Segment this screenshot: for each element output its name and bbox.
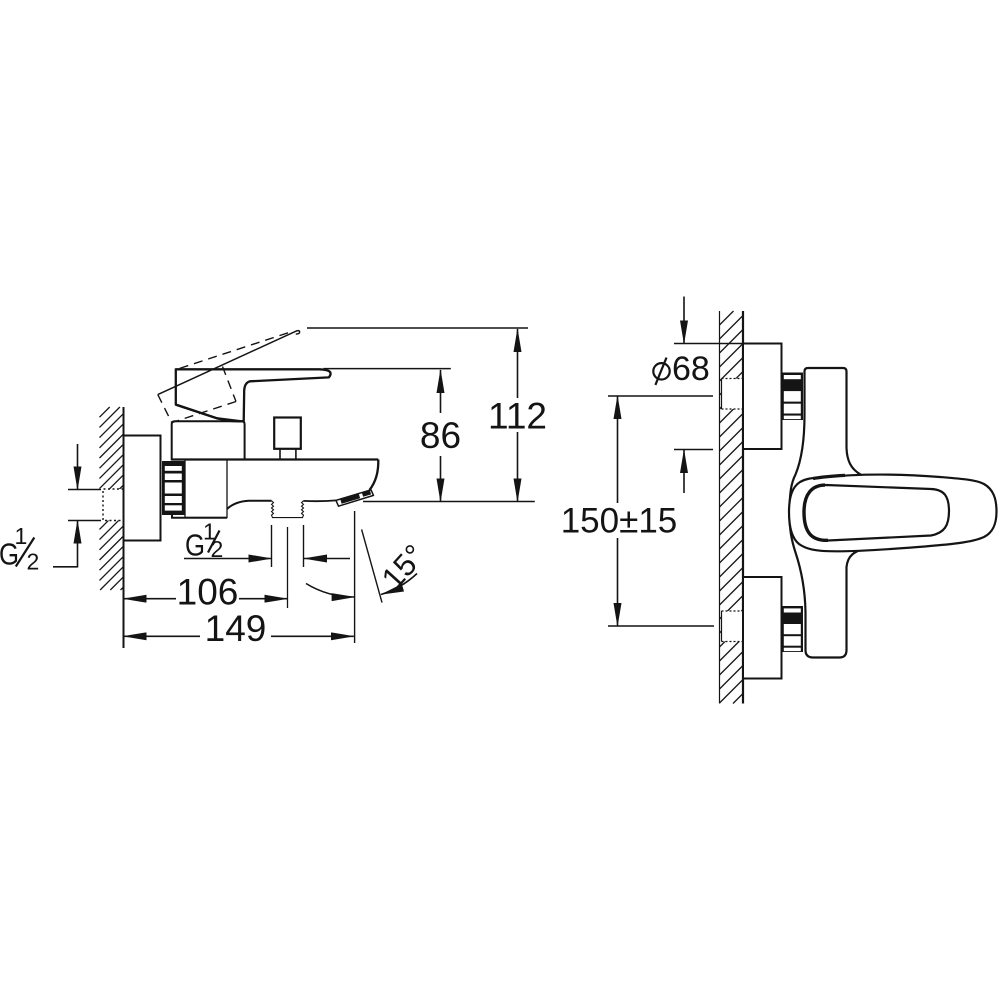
wall face line left view bbox=[123, 407, 125, 648]
cap top edge (under handle) bbox=[176, 420, 243, 422]
bottom union nut bbox=[782, 606, 804, 652]
dim 106 bbox=[124, 572, 288, 613]
raised handle top edge (thin solid with tip hook) bbox=[158, 331, 300, 395]
G1/2 outlet label bbox=[185, 519, 223, 563]
15 deg label bbox=[375, 538, 432, 596]
svg-text:112: 112 bbox=[488, 396, 547, 437]
outlet tailpiece ext line left bbox=[271, 525, 273, 567]
ext line bottom flange center bbox=[608, 625, 714, 627]
raised handle bottom edge (dashed) bbox=[172, 402, 236, 423]
handle (closed position, solid) bbox=[176, 369, 331, 421]
diverter knob stem bbox=[280, 449, 296, 460]
15 deg angled line bbox=[362, 529, 382, 602]
raised handle underside (dashed) bbox=[176, 333, 288, 370]
wall hatch right view bbox=[720, 311, 744, 704]
dia 68 label bbox=[653, 350, 710, 388]
wall back line right view bbox=[719, 311, 721, 704]
body mounting boss bbox=[185, 460, 227, 518]
raised handle left edge (dashed) bbox=[158, 395, 172, 423]
ext line flange bottom bbox=[674, 449, 713, 451]
spout underside right segment bbox=[304, 499, 337, 502]
boss bottom edge bbox=[172, 513, 227, 518]
ref line mid (86) bbox=[323, 368, 450, 370]
ext line top flange center bbox=[608, 395, 713, 397]
dia 68 top arrow bbox=[683, 297, 685, 344]
flange (escutcheon, side view) bbox=[124, 436, 161, 541]
handle paddle outer outline bbox=[789, 475, 997, 552]
dotted supply stub in wall bbox=[99, 489, 124, 521]
svg-text:86: 86 bbox=[420, 415, 461, 456]
dim 150+-15 bbox=[561, 396, 678, 626]
diverter knob bbox=[274, 418, 301, 449]
dia 68 bottom arrow bbox=[683, 450, 685, 493]
top union nut bbox=[782, 373, 804, 421]
wall face line right view bbox=[742, 311, 744, 704]
ext line flange top bbox=[674, 343, 742, 345]
G1/2 supply dim arrows bbox=[53, 444, 101, 568]
top supply square bbox=[722, 379, 744, 410]
ref line top (112) bbox=[307, 327, 528, 329]
svg-text:106: 106 bbox=[177, 572, 239, 613]
spout tip right curve bbox=[370, 460, 379, 491]
outlet tailpiece ext line right bbox=[303, 525, 305, 567]
raised handle right edge (dashed) bbox=[223, 367, 237, 402]
dim 86 bbox=[420, 370, 461, 502]
top flange bbox=[743, 344, 782, 450]
bottom flange bbox=[743, 577, 782, 679]
15 deg arc right bbox=[381, 574, 417, 595]
svg-text:G: G bbox=[185, 528, 205, 563]
body column with flares bbox=[790, 368, 876, 658]
15 deg arc left bbox=[306, 584, 355, 598]
svg-text:150±15: 150±15 bbox=[561, 502, 678, 541]
outlet center line bbox=[287, 527, 289, 608]
svg-text:149: 149 bbox=[205, 608, 267, 649]
ext line spout tip vertical bbox=[354, 511, 356, 643]
ref line bottom (spout level) bbox=[363, 501, 535, 503]
dim 112 bbox=[488, 329, 547, 502]
svg-text:2: 2 bbox=[27, 549, 40, 575]
handle wedge bottom edge (thick) bbox=[176, 405, 244, 422]
bottom supply square bbox=[722, 611, 744, 642]
svg-text:1: 1 bbox=[15, 523, 28, 549]
shower outlet tailpiece with thread bbox=[272, 501, 304, 518]
union nut (knurled, side view) bbox=[162, 461, 185, 515]
body top edge bbox=[172, 458, 379, 460]
handle inner top-face outline bbox=[804, 475, 949, 540]
G1/2 wall supply label bbox=[0, 523, 39, 575]
spout underside left segment bbox=[227, 501, 272, 509]
outlet width arrows bbox=[184, 558, 272, 560]
svg-text:68: 68 bbox=[672, 350, 710, 388]
cartridge cap bbox=[172, 421, 245, 459]
aerator (tilted outlet face) bbox=[336, 490, 374, 506]
wall hatch left view bbox=[100, 407, 124, 590]
dim 149 bbox=[124, 608, 354, 649]
